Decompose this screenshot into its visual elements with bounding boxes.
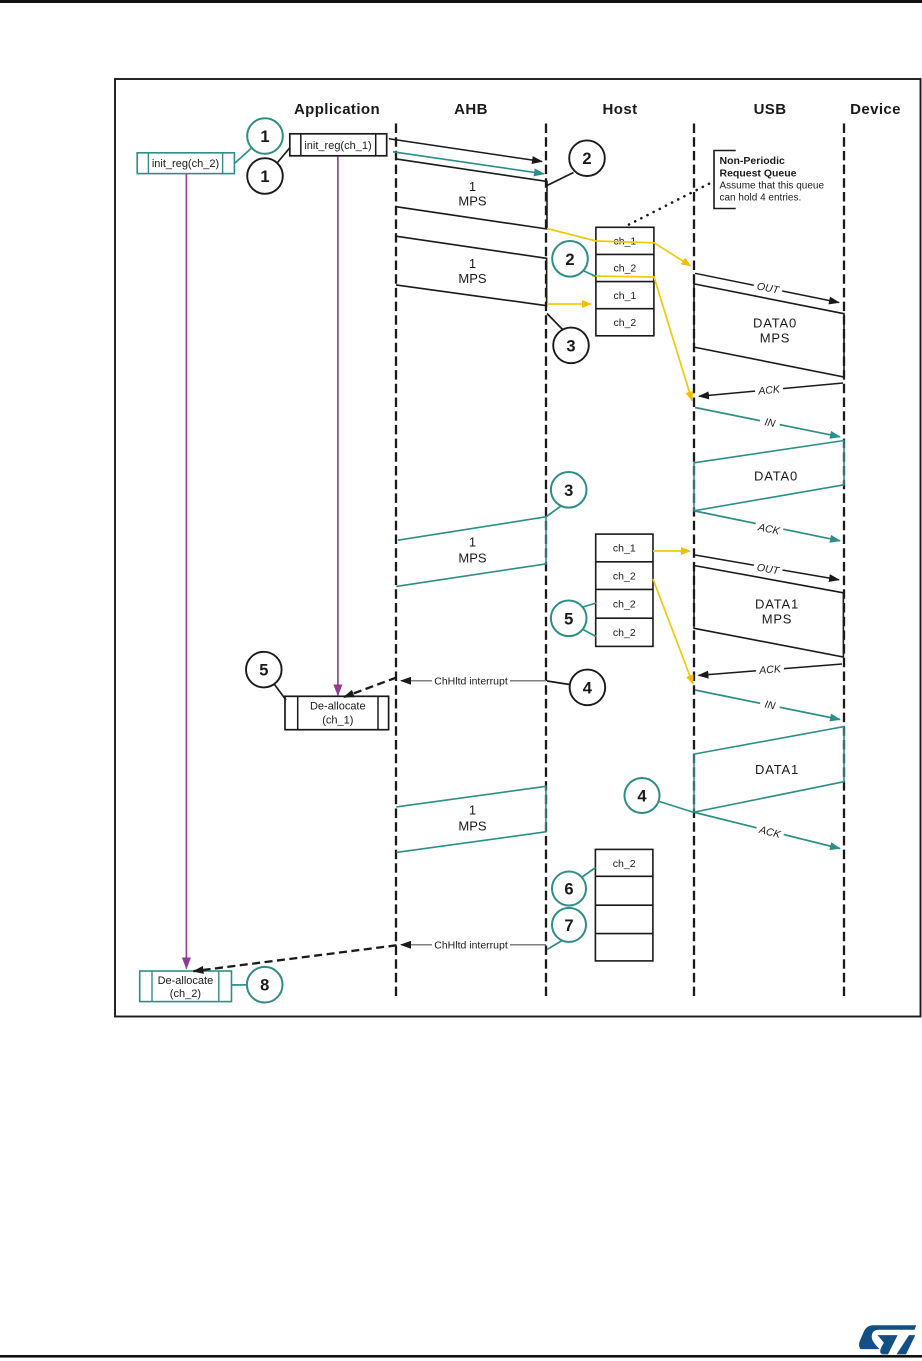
svg-text:3: 3 (564, 482, 573, 500)
svg-text:ch_1: ch_1 (613, 543, 636, 555)
transfer P1: 1 MPS parallelogram AHB-Host (396, 159, 547, 229)
svg-text:init_reg(ch_1): init_reg(ch_1) (304, 140, 371, 152)
wire: ACK arrow 1 (device to host) (699, 383, 843, 396)
wire: ChHltd interrupt line 2 (401, 944, 546, 946)
svg-text:De-allocate: De-allocate (310, 701, 366, 713)
svg-text:1: 1 (469, 179, 476, 194)
svg-text:ch_1: ch_1 (614, 290, 637, 302)
parallelogram fills (under lifelines) (396, 159, 844, 853)
transfer P4: 1 MPS teal parallelogram AHB-Host (396, 786, 546, 852)
ST logo (859, 1325, 916, 1354)
svg-text:4: 4 (583, 679, 593, 697)
svg-text:Application: Application (294, 101, 380, 118)
svg-text:4: 4 (637, 788, 647, 806)
node 7 teal circle (547, 940, 563, 950)
box init_reg(ch_2) (137, 153, 234, 174)
node 3 teal circle (547, 506, 562, 517)
note: Non-Periodic Request Queue (714, 151, 736, 209)
node 1 teal circle (235, 149, 251, 164)
svg-text:init_reg(ch_2): init_reg(ch_2) (152, 158, 219, 170)
lifeline AHB (395, 124, 397, 997)
svg-text:ACK: ACK (757, 383, 782, 397)
svg-text:Device: Device (850, 101, 901, 118)
svg-text:Non-Periodic: Non-Periodic (720, 155, 785, 167)
lifeline Host (545, 124, 547, 997)
wire: ChHltd interrupt line 1 (401, 680, 546, 682)
svg-text:MPS: MPS (762, 612, 793, 627)
svg-text:USB: USB (754, 101, 787, 118)
svg-text:3: 3 (566, 337, 575, 355)
wire: purple lifeline ch_2 (185, 174, 187, 969)
svg-text:2: 2 (582, 150, 591, 168)
svg-text:AHB: AHB (454, 101, 488, 118)
svg-text:DATA0: DATA0 (753, 316, 797, 331)
node 4 teal circle (660, 802, 695, 813)
svg-text:7: 7 (564, 917, 573, 935)
queue Q3 (ch_2 + 3 empty) (595, 849, 653, 961)
wire: IN token teal arrow 2 (695, 690, 840, 720)
svg-text:ch_2: ch_2 (614, 263, 637, 275)
svg-text:ACK: ACK (758, 663, 782, 677)
packet D2: DATA0 teal parallelogram Device-USB (694, 441, 844, 511)
node 1 black circle (278, 148, 291, 163)
svg-text:can hold 4 entries.: can hold 4 entries. (720, 193, 802, 204)
wire: ACK arrow 2 (device to host) (699, 664, 843, 675)
svg-text:Request Queue: Request Queue (720, 167, 797, 179)
node 2 black circle (547, 173, 574, 186)
box De-allocate (ch_2) (140, 971, 232, 1002)
svg-text:MPS: MPS (458, 551, 487, 566)
svg-text:2: 2 (565, 251, 574, 269)
svg-text:ChHltd interrupt: ChHltd interrupt (434, 675, 508, 687)
node 5 black circle (275, 685, 287, 701)
node 5 teal circle (583, 603, 596, 607)
svg-text:5: 5 (259, 662, 268, 680)
svg-text:8: 8 (260, 977, 269, 995)
svg-text:1: 1 (260, 168, 269, 186)
wire: yellow polyline queue write A (547, 229, 691, 266)
page bottom rule (0, 1355, 922, 1358)
svg-text:DATA0: DATA0 (754, 469, 798, 484)
svg-text:ch_2: ch_2 (613, 571, 636, 583)
wire: IN token teal arrow 1 (695, 408, 840, 437)
box De-allocate (ch_1) (285, 696, 389, 729)
diagram frame (115, 79, 921, 1017)
svg-text:5: 5 (564, 610, 573, 628)
node 8 teal circle (232, 984, 247, 986)
wire: yellow arrow D queue2 ch_1 to USB (653, 550, 690, 552)
svg-text:1: 1 (469, 256, 476, 271)
transfer P2: 1 MPS parallelogram AHB-Host (396, 236, 547, 306)
svg-text:Host: Host (603, 101, 638, 118)
svg-text:6: 6 (564, 881, 573, 899)
box init_reg(ch_1) (290, 134, 387, 156)
svg-text:Assume that this queue: Assume that this queue (720, 181, 825, 192)
svg-text:1: 1 (469, 803, 476, 818)
wire: yellow arrow C into ch_1 row3 (547, 303, 591, 305)
svg-text:1: 1 (260, 128, 269, 146)
svg-text:MPS: MPS (760, 331, 791, 346)
svg-text:1: 1 (469, 535, 476, 550)
packet D1: DATA0 MPS parallelogram USB-Device (694, 284, 844, 377)
node 4 black circle (547, 681, 570, 685)
svg-text:(ch_1): (ch_1) (322, 715, 353, 727)
packet D3: DATA1 MPS parallelogram USB-Device (694, 566, 843, 658)
wire: yellow diagonal E queue2 ch_2 to USB (653, 579, 693, 684)
lifeline Device (843, 124, 845, 997)
lifeline USB (693, 124, 695, 997)
svg-text:MPS: MPS (458, 194, 487, 209)
svg-text:ch_2: ch_2 (613, 627, 636, 639)
wire: dashed interrupt to De-allocate ch_2 (194, 945, 397, 971)
wire: dashed interrupt to De-allocate ch_1 (344, 678, 397, 698)
wire: teal write arrow to Host (393, 152, 544, 174)
page top rule (0, 0, 922, 3)
svg-text:ch_2: ch_2 (613, 858, 636, 870)
wire: teal ACK arrow 1 (host to device) (695, 511, 840, 541)
wire: purple lifeline ch_1 (337, 157, 339, 696)
wire: OUT token arrow 2 (695, 555, 839, 580)
node 2 teal circle (584, 271, 596, 277)
svg-text:MPS: MPS (458, 819, 487, 834)
svg-text:ChHltd interrupt: ChHltd interrupt (434, 939, 508, 951)
transfer P3: 1 MPS teal parallelogram AHB-Host (396, 517, 546, 587)
wire: teal ACK arrow 2 (host to device) (695, 813, 840, 849)
svg-text:DATA1: DATA1 (755, 762, 799, 777)
node 3 black circle (547, 314, 566, 334)
svg-text:De-allocate: De-allocate (158, 975, 214, 987)
svg-text:MPS: MPS (458, 271, 487, 286)
wire: OUT token arrow 1 (695, 273, 839, 302)
svg-text:ch_2: ch_2 (613, 599, 636, 611)
svg-text:ch_2: ch_2 (614, 317, 637, 329)
node 6 teal circle (582, 868, 596, 878)
wire: black write arrow init_reg(ch_1) to Host (389, 139, 542, 162)
packet D4: DATA1 teal parallelogram Device-USB (694, 727, 844, 813)
svg-text:DATA1: DATA1 (755, 597, 799, 612)
queue Q1 (ch_1 ch_2 ch_1 ch_2) (596, 227, 654, 335)
queue Q2 (ch_1 ch_2 ch_2 ch_2) (596, 534, 653, 646)
wire: yellow polyline queue B diagonal (592, 276, 692, 401)
svg-text:(ch_2): (ch_2) (170, 988, 201, 1000)
wire: dotted note pointer (629, 183, 712, 225)
